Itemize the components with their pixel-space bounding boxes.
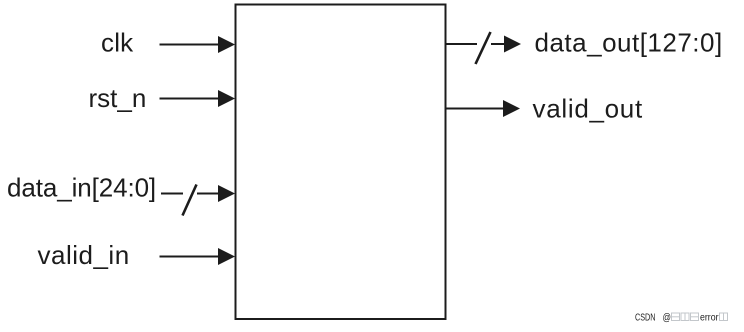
arrowhead clk <box>218 36 235 53</box>
wire data_in segment 2 <box>197 193 220 195</box>
svg-text:rst_n: rst_n <box>89 83 147 113</box>
svg-text:clk: clk <box>101 28 134 58</box>
bus-width slash data_in <box>183 185 197 216</box>
module box U1 <box>236 5 446 320</box>
wire clk <box>160 44 221 46</box>
svg-text:valid_in: valid_in <box>38 240 130 270</box>
watermark CSDN @别再出error了 <box>635 313 728 324</box>
arrowhead data_out <box>504 36 521 53</box>
wire valid_in <box>160 256 221 258</box>
wire rst_n <box>160 98 221 100</box>
svg-text:valid_out: valid_out <box>533 94 643 124</box>
arrowhead valid_out <box>503 100 520 117</box>
arrowhead rst_n <box>218 90 235 107</box>
wire valid_out <box>446 108 505 110</box>
arrowhead data_in <box>218 185 235 202</box>
svg-text:error: error <box>700 313 719 324</box>
wire data_in segment 1 <box>161 193 183 195</box>
wire data_out segment 1 <box>446 43 477 45</box>
svg-text:CSDN: CSDN <box>635 313 656 324</box>
arrowhead valid_in <box>218 248 235 265</box>
svg-text:data_out[127:0]: data_out[127:0] <box>535 28 723 58</box>
svg-text:data_in[24:0]: data_in[24:0] <box>7 173 156 203</box>
bus-width slash data_out <box>476 32 491 64</box>
wire data_out segment 2 <box>491 43 505 45</box>
svg-text:@: @ <box>663 313 672 324</box>
